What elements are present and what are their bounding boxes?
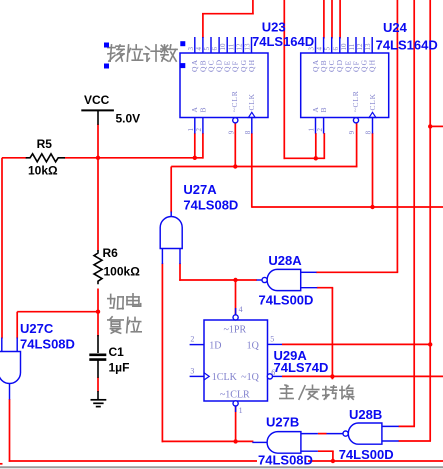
capacitor C1 [97,335,99,353]
svg-text:11: 11 [227,43,235,50]
svg-text:74LS164D: 74LS164D [252,34,314,49]
U23 bottom pins A B ~CLR CLK [194,118,196,134]
gate U28A 74LS00D NAND (pointing left) [267,269,301,290]
svg-text:100kΩ: 100kΩ [104,265,141,279]
svg-text:1µF: 1µF [109,361,130,375]
junction U24 CLK/clock rail [370,205,374,209]
svg-text:1D: 1D [209,340,221,351]
svg-text:9: 9 [228,130,236,134]
wire bottom horizontal to U27B output [162,440,254,442]
svg-text:3: 3 [187,47,195,51]
wire rail A right of R5 [65,157,204,159]
svg-text:12: 12 [235,43,243,51]
wire rail B (CLR net) [171,166,357,168]
svg-text:U27A: U27A [183,182,217,197]
svg-text:4: 4 [195,47,203,51]
junction U28A out/PR drop [233,278,237,282]
wire exits top edge x253 [252,0,254,15]
svg-text:~1Q: ~1Q [241,372,259,383]
svg-text:74LS164D: 74LS164D [376,38,438,53]
svg-text:6: 6 [211,47,219,51]
svg-text:12: 12 [356,43,364,51]
wire U28A out to U29A PR [235,280,237,315]
svg-text:B: B [319,107,328,112]
op-amp-style gate U27A 74LS08D AND (pointing up) [160,217,182,249]
annotation 主/支转换 [280,385,293,399]
wire ~1Q to right edge [282,375,443,377]
wire U24 CLR drop [356,122,358,168]
svg-text:11: 11 [348,43,356,50]
svg-text:~CLR: ~CLR [351,90,360,112]
wire U23 CLR drop [234,124,236,168]
wire 1Q to V3 [282,343,431,345]
svg-text:9: 9 [348,130,356,134]
svg-text:5: 5 [203,47,211,51]
svg-text:4: 4 [316,47,324,51]
junction 1Q/V3 [428,342,432,346]
junction U23 CLR/rail B [233,164,237,168]
ground [97,391,99,400]
wire left edge vertical to U27C in1 [1,158,3,339]
svg-text:8: 8 [244,130,252,134]
resistor R5 [26,154,65,162]
svg-text:~CLR: ~CLR [230,90,239,112]
svg-text:74LS08D: 74LS08D [20,337,75,352]
annotation 加电复位 [108,294,123,308]
svg-text:R6: R6 [103,246,119,260]
junction CLR drop/bottom horizontal [233,439,237,443]
U29A pin ~1Q (6) [267,374,272,379]
svg-text:74LS00D: 74LS00D [259,292,314,307]
wire stub bottom-left edge [0,463,3,465]
wire U29A CLR drop [235,406,237,442]
svg-text:10: 10 [219,43,227,51]
wire U24 AB horizontal [284,157,325,159]
svg-text:1: 1 [308,128,316,132]
junction U24 pin1 [314,156,318,160]
wire U27B in2 horizontal [318,450,334,452]
junction U23 pin1/rail A [193,156,197,160]
wire U24 QB riser [323,0,325,39]
U29A pin 1Q (5) [268,343,283,345]
wire U23 QB riser [202,13,204,38]
junction V4a/~1Q [330,374,334,378]
svg-text:QH: QH [247,59,256,72]
IC U24 74LS164D body [301,53,389,118]
wire U27A in1 long vertical [161,263,163,442]
power VCC [81,109,114,111]
svg-text:13: 13 [244,43,252,51]
junction R6-C1 node [96,310,100,314]
svg-text:CLK: CLK [368,93,377,110]
U29A pin 1D (2) [190,344,204,346]
wire U28A in1 to V1 [316,271,398,273]
wire V4b to bottom rail [332,451,334,462]
svg-text:74LS08D: 74LS08D [258,453,313,468]
wire U28A in2 horizontal [317,287,334,289]
wire R6 to C1 [97,289,99,337]
wire C1 to ground red part [97,377,99,392]
svg-text:4: 4 [239,305,243,314]
svg-text:VCC: VCC [84,93,110,107]
wire U28A output to U27A in2 [179,279,257,281]
wire U24 QC riser [331,0,333,39]
wire clock rail [252,206,443,208]
svg-text:74LS00D: 74LS00D [339,447,394,462]
svg-text:5.0V: 5.0V [116,112,141,126]
svg-text:13: 13 [364,43,372,51]
IC U23 74LS164D body [180,53,268,118]
wire V3 right column to U28B in2 [429,0,431,441]
gate U27C 74LS08D AND (pointing down, clipped at left edge) [0,352,21,384]
svg-text:2: 2 [190,335,194,344]
svg-text:10kΩ: 10kΩ [28,164,58,178]
svg-text:U23: U23 [262,20,286,35]
junction V4b/bottom rail [331,459,335,463]
wire U27A in2 vertical [179,263,181,281]
svg-text:74LS08D: 74LS08D [183,197,238,212]
svg-text:U24: U24 [383,20,408,35]
wire U27C in2 vertical [16,312,18,339]
svg-text:1CLK: 1CLK [212,372,238,383]
wire V1 right column to U28A in1 [396,0,398,272]
svg-text:74LS74D: 74LS74D [274,360,329,375]
svg-text:3: 3 [190,366,194,375]
annotation 移位计数 (selected text) [108,45,124,61]
wire R6-C1 node to U27C in2 [17,311,99,313]
wire U23 pin1 drop [194,133,196,159]
junction V3 stub [428,124,432,128]
wire U24 pin2 drop [323,133,325,159]
svg-text:R5: R5 [37,137,53,151]
svg-text:5: 5 [324,47,332,51]
wire V2 right column to U28B in1 [413,0,415,426]
wire U24 AB feed vertical [283,0,285,159]
svg-text:1: 1 [239,406,243,415]
U24 top pins QA-QH [315,37,317,53]
wire V4a vertical to ~1Q [331,288,333,380]
wire U28B in2 to V3 [399,440,432,442]
svg-text:U28B: U28B [349,407,382,422]
gate U28B 74LS00D NAND (pointing left) [348,423,382,444]
svg-text:2: 2 [195,128,203,132]
svg-text:5: 5 [270,335,274,344]
wire rail B to U27A output [170,167,172,213]
resistor R6 [94,250,102,284]
wire stub right edge y126 [430,125,443,127]
wire U24 QD riser [339,0,341,39]
U23 top pins QA-QH [194,37,196,53]
svg-text:10: 10 [340,43,348,51]
svg-text:CLK: CLK [247,93,256,110]
svg-text:QH: QH [368,59,377,72]
wire U28B out to U27B in1 [318,433,327,435]
svg-text:1: 1 [187,128,195,132]
wire VCC stem [97,124,99,159]
svg-text:B: B [198,107,207,112]
wire VCC rail to R6 [97,158,99,251]
selection handles [104,43,109,48]
svg-text:8: 8 [365,130,373,134]
flip-flop U29A 74LS74D body [204,320,268,401]
svg-text:2: 2 [316,128,324,132]
window border bottom [0,466,443,468]
wire rail A left of R5 [2,157,27,159]
wire U27C output down [9,399,11,462]
wire U23 pin2 drop [202,133,204,159]
svg-text:1Q: 1Q [247,340,260,351]
wire U28B in1 to V2 [399,425,416,427]
U29A pin 1CLK (3) [190,375,204,377]
wire U24 pin1 drop [315,133,317,159]
U29A pin ~1PR (4) [235,308,237,315]
wire U23 CLK drop [251,133,253,208]
svg-text:U28A: U28A [268,253,302,268]
svg-text:C1: C1 [109,345,125,359]
svg-text:~1CLR: ~1CLR [220,390,250,401]
svg-text:U27C: U27C [20,321,54,336]
wire top jog horizontal [202,13,254,15]
wire bottom rail [9,460,443,462]
junction VCC/rail A [96,156,100,160]
gate U27B 74LS08D AND (pointing left) [267,432,301,454]
svg-text:U27B: U27B [266,414,299,429]
U24 bottom pins A B ~CLR CLK [315,118,317,134]
svg-text:6: 6 [332,47,340,51]
wire U24 CLK drop [372,133,374,208]
U29A pin ~1CLR (1) [233,401,238,406]
svg-text:~1PR: ~1PR [223,325,246,336]
